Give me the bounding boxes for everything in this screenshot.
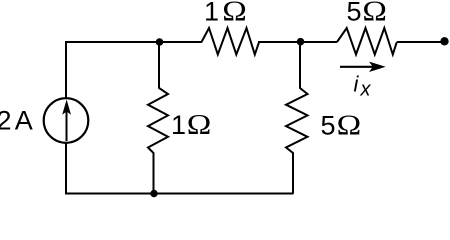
resistor R3 5ohm horizontal zigzag <box>337 28 397 55</box>
node A junction dot <box>156 38 164 46</box>
svg-text:A: A <box>15 106 33 136</box>
svg-text:1: 1 <box>171 110 186 140</box>
current arrow ix shaft <box>340 66 374 68</box>
svg-text:2: 2 <box>0 106 12 136</box>
svg-text:Ω: Ω <box>337 110 362 141</box>
svg-text:5: 5 <box>321 111 336 141</box>
current source arrowhead <box>62 100 71 115</box>
wire: top middle between R1 and R3 <box>258 41 337 43</box>
resistor R1 1ohm horizontal zigzag <box>202 28 260 55</box>
node bottom junction dot <box>150 190 157 197</box>
svg-text:Ω: Ω <box>222 0 247 27</box>
resistor R4 5ohm vertical branch (with stubs) <box>286 42 308 194</box>
terminal dot <box>440 37 448 45</box>
current arrow ix head <box>369 62 386 72</box>
svg-text:5: 5 <box>347 0 362 27</box>
current source arrow shaft <box>66 111 68 142</box>
wire: bottom rail with left vertical from source <box>66 143 294 194</box>
node B junction dot <box>297 38 305 46</box>
wire: top-left loop (left vertical + top wire to R1) <box>66 42 202 99</box>
resistor R2 1ohm vertical branch (with stubs) <box>148 42 168 194</box>
svg-text:Ω: Ω <box>362 0 387 27</box>
current source I1 circle <box>44 98 89 143</box>
svg-text:Ω: Ω <box>187 109 212 140</box>
svg-text:x: x <box>360 79 372 101</box>
svg-text:1: 1 <box>204 0 219 27</box>
wire: top right to terminal <box>397 41 445 43</box>
